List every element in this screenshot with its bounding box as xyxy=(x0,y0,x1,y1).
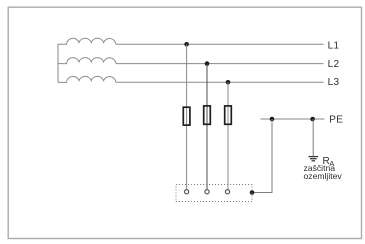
ground: protective earth electrode xyxy=(309,157,319,161)
terminal: phase L2 input xyxy=(205,190,209,194)
wire: drop from L2 to load terminal xyxy=(206,64,208,190)
node: PE to earth electrode xyxy=(310,117,315,122)
svg-text:ozemljitev: ozemljitev xyxy=(304,171,343,181)
wire: star-point bus of source windings xyxy=(57,44,59,82)
node: PE terminal on appliance xyxy=(250,190,255,195)
node: tap of L1 xyxy=(184,42,189,47)
wire: drop from L3 to load terminal xyxy=(227,82,229,189)
winding W2 (phase L2 source coil) xyxy=(58,58,116,64)
fuse F3 xyxy=(225,106,232,124)
wire: earth electrode lead xyxy=(312,119,314,156)
wire: PE down-drop to appliance xyxy=(271,119,273,193)
svg-text:L1: L1 xyxy=(328,41,340,52)
appliance enclosure (dashed) xyxy=(176,185,252,202)
wire: phase conductor L1 xyxy=(116,43,324,45)
svg-text:PE: PE xyxy=(329,115,343,126)
winding W1 (phase L1 source coil) xyxy=(58,38,116,44)
wire: drop from L1 to load terminal xyxy=(186,44,188,189)
winding W3 (phase L3 source coil) xyxy=(58,76,116,82)
terminal: phase L3 input xyxy=(225,190,229,194)
wire: PE conductor xyxy=(261,118,325,120)
svg-text:L3: L3 xyxy=(328,77,340,88)
wire: phase conductor L3 xyxy=(116,81,324,83)
node: tap of L2 xyxy=(205,61,210,66)
terminal: phase L1 input xyxy=(185,190,189,194)
wire: PE run to appliance terminal xyxy=(252,192,273,194)
wire: phase conductor L2 xyxy=(116,63,324,65)
node: tap of L3 xyxy=(226,80,231,85)
fuse F1 xyxy=(183,107,190,125)
svg-text:L2: L2 xyxy=(328,59,340,70)
node: PE to installation xyxy=(270,117,275,122)
fuse F2 xyxy=(204,106,211,124)
